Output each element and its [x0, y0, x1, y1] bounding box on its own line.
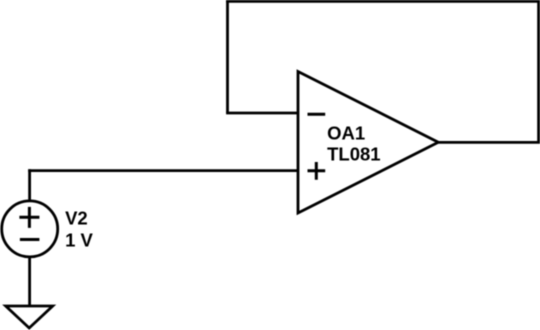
- op-amp plus input marker: [308, 162, 326, 180]
- wire non-inverting input horizontal: [28, 169, 298, 172]
- wire output from op-amp to feedback: [438, 141, 540, 144]
- voltage source minus marker: [20, 238, 40, 241]
- svg-text:V2: V2: [65, 207, 88, 228]
- voltage source V2 circle: [2, 201, 58, 257]
- wire from source V2 bottom to ground: [28, 256, 31, 306]
- wire feedback top horizontal: [226, 0, 540, 3]
- svg-text:TL081: TL081: [327, 144, 380, 165]
- ground: [6, 306, 53, 328]
- op-amp minus input marker: [308, 113, 326, 116]
- svg-text:1 V: 1 V: [65, 229, 93, 250]
- wire feedback left vertical: [226, 0, 229, 113]
- wire inverting input: [226, 112, 298, 115]
- op-amp OA1 triangle body: [298, 72, 438, 214]
- wire feedback right vertical: [537, 0, 540, 142]
- wire from non-inverting input down to source V2: [28, 169, 31, 202]
- svg-text:OA1: OA1: [327, 123, 365, 144]
- voltage source plus marker: [19, 207, 39, 228]
